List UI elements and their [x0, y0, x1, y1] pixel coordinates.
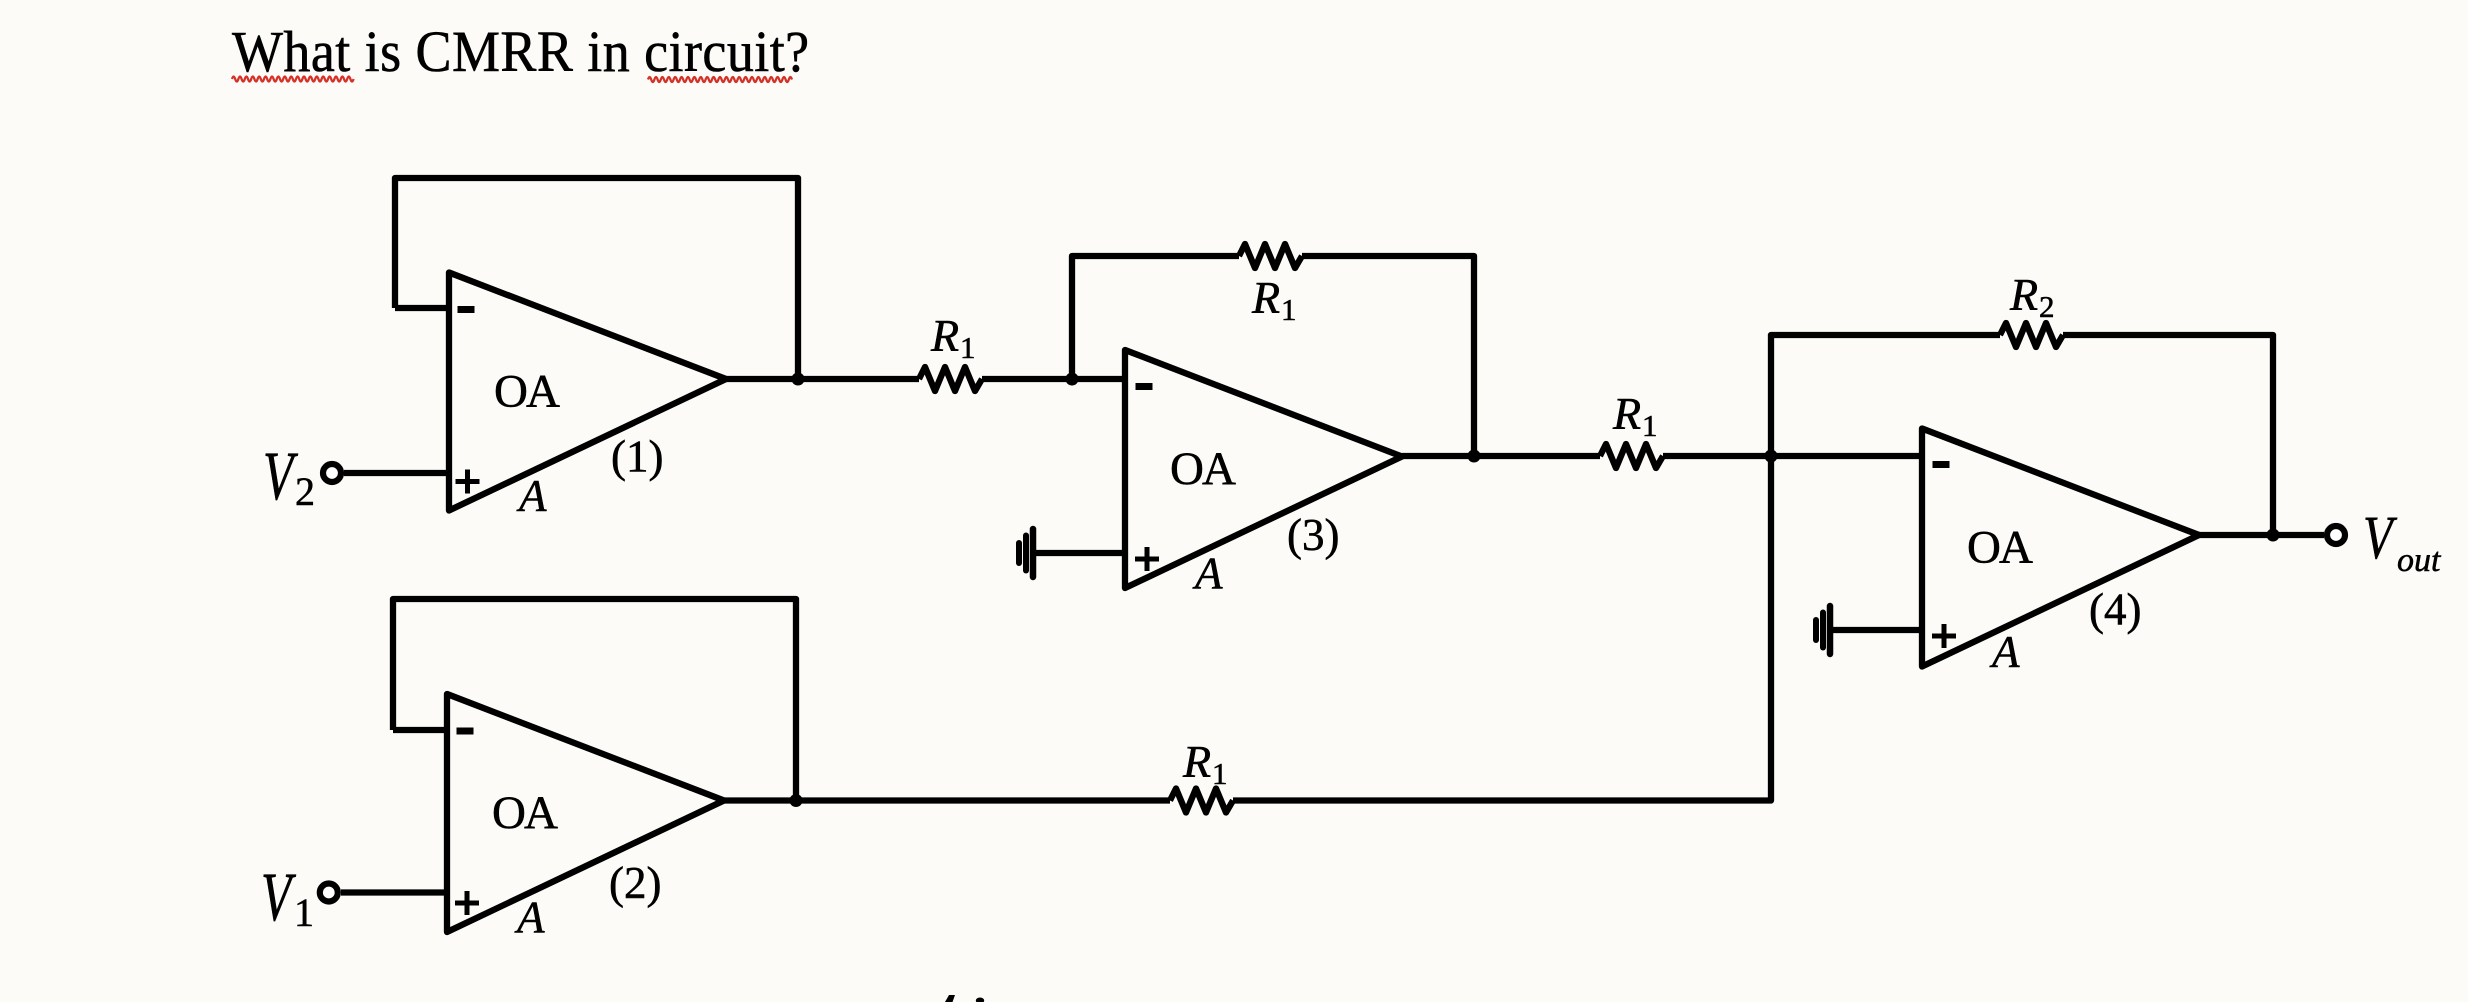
svg-text:OA: OA: [1967, 522, 2033, 574]
svg-text:1: 1: [1212, 756, 1228, 791]
junction: OA3 inverting node: [1066, 373, 1079, 386]
svg-text:OA: OA: [492, 787, 558, 839]
svg-text:A: A: [514, 893, 545, 943]
label + of OA4: [1932, 634, 1956, 639]
junction: summing node: [1765, 450, 1778, 463]
resistor R1 (OA1 output to OA3 - node): [919, 367, 982, 391]
wire: OA1 feedback loop (output to - input): [395, 178, 798, 375]
resistor R1 (OA3 feedback): [1239, 244, 1302, 268]
wire: OA1 output: [726, 376, 919, 382]
resistor R1 (OA3 output to summing node): [1600, 444, 1663, 468]
svg-text:1: 1: [1281, 292, 1297, 327]
svg-text:A: A: [1192, 549, 1223, 599]
wire: R2 to OA4 output: [2063, 335, 2273, 535]
op-amp U2 (OA 2): [447, 694, 724, 932]
wire: bottom rail to summing node riser: [1233, 456, 1771, 801]
terminal V1: [320, 884, 338, 902]
op-amp U1 (OA 1): [449, 273, 726, 511]
spellcheck squiggle under circuit: [648, 77, 792, 82]
wire: OA3 output: [1402, 453, 1600, 459]
resistor R2 (OA4 feedback): [2000, 323, 2063, 347]
ground at OA4 + input: [1827, 606, 1834, 654]
junction: OA2 output node: [790, 794, 803, 807]
svg-text:(2): (2): [609, 858, 661, 908]
svg-text:2: 2: [295, 469, 315, 514]
svg-text:(1): (1): [611, 432, 663, 482]
op-amp U4 (OA 4): [1922, 429, 2199, 667]
svg-text:R: R: [1182, 736, 1211, 787]
wire: V2 input to OA1 +: [344, 470, 449, 476]
label + of OA3: [1135, 557, 1159, 562]
terminal Vout: [2327, 526, 2345, 544]
wire: R2 feedback riser from summing node: [1771, 335, 2000, 456]
cropped glyph fragment at bottom: [945, 995, 955, 1002]
junction: Vout node: [2267, 529, 2280, 542]
svg-text:What is CMRR in circuit?: What is CMRR in circuit?: [232, 20, 810, 84]
svg-text:1: 1: [960, 330, 976, 365]
svg-text:1: 1: [1642, 408, 1658, 443]
wire: OA1 inverting input stub: [395, 305, 449, 311]
wire: OA3 feedback riser: [1072, 256, 1239, 379]
wire: ground to OA4 + input: [1833, 627, 1922, 633]
label + of OA2: [455, 901, 479, 906]
wire: OA2 feedback loop: [393, 599, 796, 797]
ground at OA3 + input: [1030, 529, 1037, 577]
svg-text:V: V: [263, 438, 299, 514]
wire: R1 to OA4 - input: [1663, 453, 1922, 459]
label - of OA2: [457, 728, 474, 735]
wire: ground to OA3 + input: [1036, 550, 1125, 556]
wire: OA2 inverting input stub: [393, 727, 447, 733]
svg-text:2: 2: [2039, 289, 2055, 324]
svg-text:(4): (4): [2089, 585, 2141, 635]
spellcheck squiggle under What: [232, 77, 354, 82]
terminal V2: [323, 464, 341, 482]
wire: OA3 feedback to output: [1302, 256, 1474, 456]
wire: OA4 output to Vout: [2199, 532, 2324, 538]
junction: OA3 output node: [1468, 450, 1481, 463]
wire: R1 to OA3 - input: [982, 376, 1125, 382]
wire: V1 input to OA2 +: [341, 889, 447, 895]
node label Vout: [2363, 504, 2398, 572]
node label V2: [263, 438, 299, 514]
wire: OA2 output (bottom rail): [724, 797, 1170, 803]
label - of OA4: [1933, 461, 1950, 468]
svg-text:R: R: [2009, 269, 2038, 320]
junction: OA1 output node: [792, 373, 805, 386]
label - of OA3: [1136, 383, 1153, 390]
op-amp U3 (OA 3): [1125, 350, 1402, 588]
label - of OA1: [458, 306, 475, 313]
svg-text:OA: OA: [494, 366, 560, 418]
svg-text:V: V: [261, 859, 297, 935]
svg-text:out: out: [2397, 542, 2442, 579]
svg-text:R: R: [1612, 388, 1641, 439]
svg-text:A: A: [1989, 627, 2020, 677]
svg-text:R: R: [1251, 272, 1280, 323]
title text: [232, 20, 810, 84]
node label V1: [261, 859, 297, 935]
svg-text:A: A: [516, 471, 547, 521]
svg-text:(3): (3): [1287, 510, 1339, 560]
svg-text:1: 1: [294, 890, 314, 935]
resistor R1 (OA2 output to summing node): [1170, 789, 1233, 813]
svg-text:R: R: [930, 310, 959, 361]
label + of OA1: [456, 479, 480, 484]
svg-text:OA: OA: [1170, 443, 1236, 495]
